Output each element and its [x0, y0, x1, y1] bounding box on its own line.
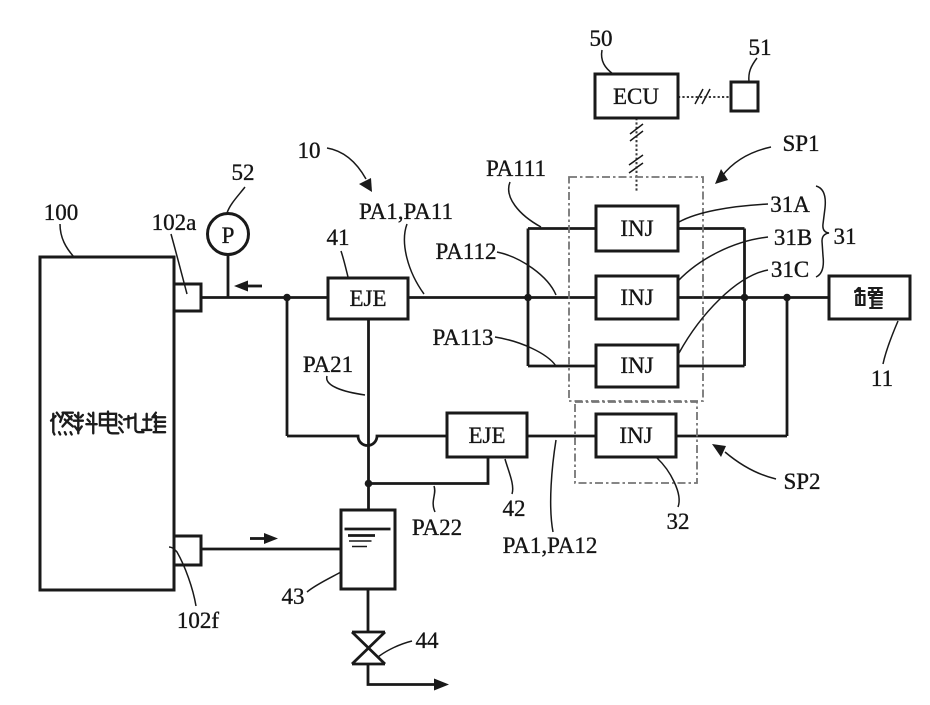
injector INJ 32 — [596, 414, 676, 457]
leader PA113 — [495, 337, 556, 366]
leader 31A — [679, 204, 768, 222]
leader 51 — [749, 58, 757, 82]
wire PA21 horizontal with hop over vertical — [287, 436, 787, 446]
gas-liquid separator 43 — [341, 510, 395, 589]
arrow SP1 to dashed box — [722, 147, 771, 176]
connector 102f on stack — [174, 536, 201, 565]
leader PA22 — [433, 486, 435, 512]
wire PA22 line from EJE2 bottom — [369, 457, 489, 484]
signal hatch marks on ECU-51 line — [695, 89, 710, 104]
wire right bus of injector bank — [743, 229, 746, 367]
signal hatch marks upper pair — [630, 124, 643, 141]
svg-text:44: 44 — [416, 628, 440, 653]
svg-text:ECU: ECU — [613, 84, 659, 109]
leader PA1,PA11 — [404, 224, 424, 294]
signal hatch marks lower pair — [629, 155, 643, 173]
wire EJE1 down stem to trap — [367, 319, 370, 510]
svg-text:P: P — [222, 223, 235, 248]
svg-text:PA1,PA11: PA1,PA11 — [359, 199, 453, 224]
svg-text:42: 42 — [503, 496, 526, 521]
wire left bus of injector bank — [527, 229, 530, 367]
leader 11 — [883, 321, 898, 364]
leader 41 — [341, 251, 348, 277]
wire stack outlet to trap — [201, 548, 341, 551]
node junction PA22 x trap stem — [365, 480, 373, 488]
wire right vertical from main line down to second row — [786, 298, 789, 437]
svg-text:41: 41 — [327, 225, 350, 250]
wire bottom branch PA113 — [528, 365, 596, 368]
svg-text:PA111: PA111 — [486, 156, 546, 181]
ejector EJE U42 — [447, 413, 527, 457]
valve 44 — [352, 632, 385, 664]
leader PA1,PA12 — [551, 440, 556, 532]
leader 100 — [60, 224, 74, 257]
svg-text:102a: 102a — [152, 210, 197, 235]
svg-text:31A: 31A — [770, 192, 810, 217]
svg-text:102f: 102f — [177, 608, 220, 633]
wire trap outlet to valve and drain arrow — [368, 589, 437, 685]
arrow SP2 to dashed box — [725, 452, 776, 479]
leader PA111 — [509, 182, 541, 227]
svg-text:PA113: PA113 — [433, 325, 494, 350]
signal line ECU to unit 51 — [678, 96, 731, 98]
svg-text:11: 11 — [871, 366, 893, 391]
fuel cell stack 100 — [40, 257, 174, 590]
svg-text:100: 100 — [44, 200, 79, 225]
node junction main x left bus — [524, 294, 532, 302]
leader PA21 — [327, 376, 365, 395]
injector INJ 31A — [596, 206, 678, 251]
dashed group box SP2 — [575, 402, 697, 483]
wire INJ1 right to bus — [678, 227, 745, 230]
tank text 罐 — [855, 288, 881, 308]
svg-text:PA21: PA21 — [303, 352, 353, 377]
pressure gauge 52 — [208, 214, 249, 255]
leader 50 — [602, 50, 613, 74]
wire top branch PA111 — [528, 227, 596, 230]
svg-text:SP1: SP1 — [782, 131, 819, 156]
leader 52 — [227, 187, 245, 213]
wire main horizontal line PA1 — [201, 296, 829, 299]
svg-text:INJ: INJ — [619, 423, 652, 448]
svg-text:31C: 31C — [771, 257, 809, 282]
leader 44 — [378, 641, 412, 657]
arrow drain right arrowhead — [434, 679, 449, 691]
ejector EJE U41 — [328, 278, 408, 319]
leader 31C — [679, 270, 768, 353]
wire gauge stem — [227, 254, 230, 298]
node junction main x left branch — [283, 294, 291, 302]
svg-text:31: 31 — [834, 224, 857, 249]
node junction main x second row drop — [783, 294, 791, 302]
unit 51 small box — [731, 82, 758, 111]
svg-text:INJ: INJ — [620, 216, 653, 241]
wire INJ3 right to bus — [678, 365, 745, 368]
arrow flow left above main line — [246, 285, 262, 288]
leader PA112 — [497, 252, 556, 295]
tank 11 — [829, 276, 910, 319]
liquid level lines — [345, 528, 391, 531]
connector 102a on stack — [174, 284, 201, 311]
leader 102a — [171, 234, 187, 294]
arrow 10 — [327, 148, 366, 179]
svg-text:32: 32 — [667, 509, 690, 534]
injector INJ 31B — [596, 276, 678, 319]
leader 43 — [307, 572, 341, 592]
svg-text:INJ: INJ — [620, 353, 653, 378]
node junction main x right bus — [741, 294, 749, 302]
injector INJ 31C — [596, 345, 678, 387]
leader 31B — [678, 237, 768, 281]
svg-text:EJE: EJE — [349, 286, 386, 311]
leader 102f — [169, 547, 196, 606]
svg-text:PA1,PA12: PA1,PA12 — [503, 533, 598, 558]
svg-text:SP2: SP2 — [783, 469, 820, 494]
svg-text:INJ: INJ — [620, 285, 653, 310]
svg-text:EJE: EJE — [468, 423, 505, 448]
svg-text:PA22: PA22 — [412, 515, 462, 540]
arrow flow right above stack outlet — [250, 537, 264, 540]
dashed group box SP1 — [569, 177, 703, 401]
brace 31 group — [816, 186, 829, 277]
wire left branch down from node A — [286, 298, 289, 437]
svg-text:43: 43 — [282, 584, 305, 609]
leader 32 — [657, 458, 679, 507]
stack text 燃料电池堆 — [51, 412, 165, 435]
svg-text:PA112: PA112 — [436, 239, 497, 264]
leader 42 — [505, 459, 513, 494]
svg-text:50: 50 — [590, 26, 613, 51]
signal line ECU down to SP1 — [636, 118, 638, 191]
svg-text:51: 51 — [749, 35, 772, 60]
svg-text:52: 52 — [232, 160, 255, 185]
ECU U50 — [595, 74, 678, 118]
svg-text:31B: 31B — [774, 225, 812, 250]
svg-text:10: 10 — [298, 138, 321, 163]
